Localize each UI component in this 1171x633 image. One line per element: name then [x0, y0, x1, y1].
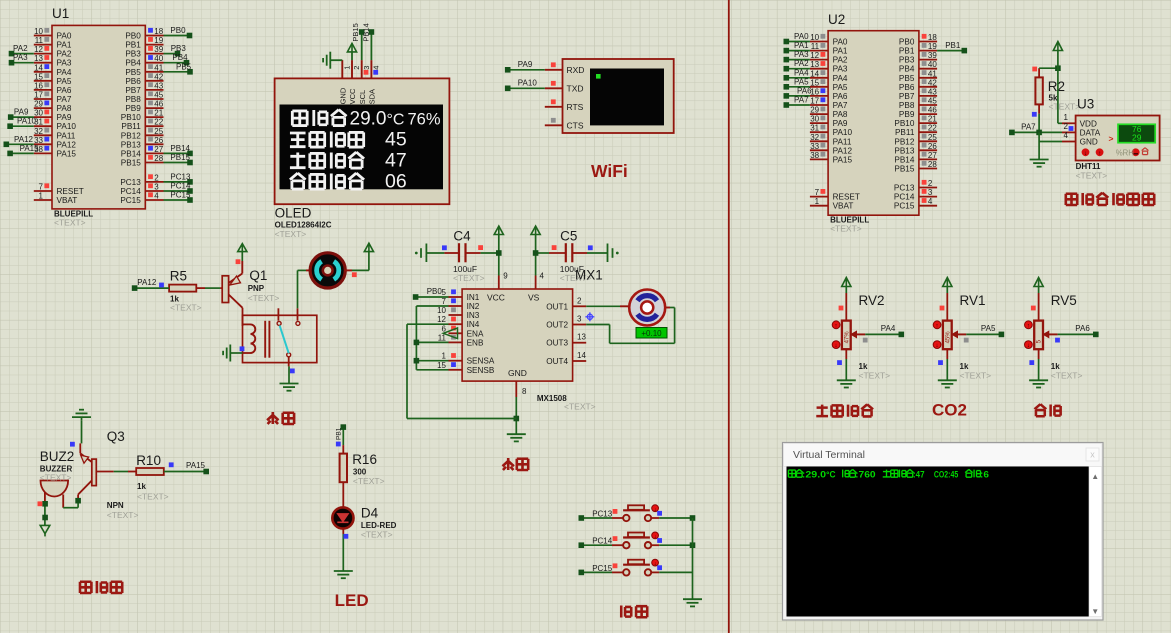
svg-text:PC14: PC14 [120, 187, 141, 196]
svg-text:PC13: PC13 [120, 178, 141, 187]
svg-text:16: 16 [34, 81, 43, 90]
svg-text:<TEXT>: <TEXT> [830, 224, 862, 234]
svg-text:RESET: RESET [833, 193, 860, 202]
svg-text:41: 41 [928, 69, 937, 78]
svg-text:28: 28 [928, 160, 937, 169]
svg-text:Q1: Q1 [249, 268, 267, 283]
svg-text:PA15: PA15 [20, 144, 40, 153]
svg-text:RXD: RXD [567, 65, 585, 75]
svg-text:VBAT: VBAT [57, 196, 78, 205]
svg-text::760: :760 [855, 469, 876, 480]
svg-text:PA1: PA1 [57, 41, 72, 50]
svg-text:PB13: PB13 [894, 146, 914, 155]
svg-text:OUT2: OUT2 [546, 321, 568, 330]
svg-text:2: 2 [154, 173, 159, 182]
svg-text:OUT3: OUT3 [546, 339, 568, 348]
svg-text:PA8: PA8 [833, 110, 848, 119]
svg-text:VCC: VCC [487, 293, 505, 303]
svg-text:+0.10: +0.10 [641, 329, 662, 338]
svg-text:7: 7 [815, 188, 820, 197]
svg-text:PB8: PB8 [125, 95, 141, 104]
svg-text:27: 27 [928, 151, 937, 160]
svg-text:PA0: PA0 [833, 38, 848, 47]
svg-text:12: 12 [810, 51, 819, 60]
svg-text:OLED: OLED [275, 206, 312, 221]
svg-text:>: > [1109, 134, 1114, 144]
svg-text:4: 4 [372, 66, 381, 70]
svg-text:PA6: PA6 [57, 86, 72, 95]
svg-text:PB0: PB0 [125, 32, 141, 41]
svg-text:3: 3 [362, 66, 371, 70]
svg-text:<TEXT>: <TEXT> [453, 273, 485, 283]
svg-text:7: 7 [39, 183, 44, 192]
svg-text:PB6: PB6 [899, 83, 915, 92]
svg-text:PB1: PB1 [899, 47, 915, 56]
svg-text:PB3: PB3 [899, 56, 915, 65]
svg-text:<TEXT>: <TEXT> [353, 476, 385, 486]
svg-text:2: 2 [1064, 122, 1069, 131]
svg-text:PB14: PB14 [894, 155, 914, 164]
svg-text:19: 19 [928, 42, 937, 51]
svg-text:15: 15 [437, 361, 446, 370]
svg-text:41: 41 [154, 63, 163, 72]
svg-text:PA5: PA5 [833, 83, 848, 92]
svg-text:BUZ2: BUZ2 [40, 449, 75, 464]
svg-text:VDD: VDD [1080, 119, 1097, 128]
svg-text:PA12: PA12 [137, 278, 157, 287]
svg-text:▬: ▬ [1133, 151, 1138, 156]
svg-text:°C: °C [387, 112, 405, 129]
svg-text:PB0: PB0 [899, 38, 915, 47]
svg-text:1: 1 [815, 197, 820, 206]
svg-text:DATA: DATA [1080, 128, 1101, 137]
svg-text:SCL: SCL [358, 90, 367, 105]
svg-text:8: 8 [522, 387, 527, 396]
svg-text:GND: GND [339, 87, 348, 104]
svg-text:10: 10 [34, 27, 43, 36]
svg-text::29.0: :29.0 [802, 469, 826, 480]
svg-text:x: x [1090, 450, 1095, 460]
svg-text:PB5: PB5 [125, 68, 141, 77]
svg-text:ENB: ENB [467, 338, 484, 347]
svg-text:R10: R10 [136, 453, 161, 468]
svg-text:PC14: PC14 [170, 182, 191, 191]
svg-text:PB8: PB8 [899, 101, 915, 110]
svg-text:U1: U1 [52, 6, 69, 21]
svg-text:PB14: PB14 [170, 144, 190, 153]
svg-text:IN2: IN2 [467, 302, 480, 311]
svg-text:PA1: PA1 [833, 47, 848, 56]
svg-text:11: 11 [811, 42, 820, 51]
svg-text:PA2: PA2 [13, 44, 28, 53]
svg-text:PC15: PC15 [592, 564, 613, 573]
svg-text:42: 42 [154, 72, 163, 81]
svg-text:45: 45 [154, 91, 163, 100]
svg-text:PA1: PA1 [794, 41, 809, 50]
svg-text:R2: R2 [1048, 79, 1065, 94]
svg-text:↑: ↑ [835, 323, 838, 329]
svg-text:VBAT: VBAT [833, 202, 854, 211]
svg-text:PA8: PA8 [57, 104, 72, 113]
svg-text:PA9: PA9 [833, 119, 848, 128]
svg-text:RV5: RV5 [1051, 293, 1077, 308]
svg-text:NPN: NPN [107, 501, 124, 510]
svg-text:PB11: PB11 [895, 128, 915, 137]
svg-text:32: 32 [810, 133, 819, 142]
svg-text:PC13: PC13 [592, 510, 613, 519]
svg-text:1: 1 [343, 66, 352, 70]
svg-text:↑: ↑ [1098, 151, 1101, 157]
svg-text:14: 14 [34, 63, 43, 72]
svg-text:PB15: PB15 [121, 159, 141, 168]
svg-text:PB7: PB7 [899, 92, 915, 101]
svg-text:PA9: PA9 [14, 108, 29, 117]
svg-text:76%: 76% [408, 111, 441, 129]
svg-text:R16: R16 [352, 452, 377, 467]
svg-text:16: 16 [810, 87, 819, 96]
svg-text:PC14: PC14 [894, 193, 915, 202]
svg-text:PA5: PA5 [981, 324, 996, 333]
svg-text:PB15: PB15 [351, 23, 360, 41]
svg-text:10: 10 [437, 306, 446, 315]
svg-text::6: :6 [980, 469, 989, 480]
svg-text:14: 14 [810, 69, 819, 78]
svg-text:30: 30 [810, 115, 819, 124]
svg-text:RTS: RTS [567, 102, 584, 112]
svg-text:PA10: PA10 [17, 117, 37, 126]
svg-text:PA3: PA3 [57, 59, 72, 68]
svg-text:SDA: SDA [368, 89, 377, 104]
svg-text:RV2: RV2 [859, 293, 885, 308]
svg-text:↓: ↓ [835, 343, 838, 349]
svg-text:14: 14 [577, 351, 586, 360]
svg-text:PC13: PC13 [170, 172, 191, 181]
svg-text:↑: ↑ [936, 323, 939, 329]
svg-text:PA7: PA7 [1021, 123, 1036, 132]
svg-text:PA2: PA2 [794, 59, 809, 68]
svg-text:GND: GND [1080, 138, 1098, 147]
svg-text:13: 13 [810, 60, 819, 69]
svg-text:C4: C4 [453, 229, 471, 244]
svg-text:46: 46 [154, 100, 163, 109]
svg-text:PB11: PB11 [121, 122, 141, 131]
svg-text::47: :47 [913, 469, 925, 480]
svg-text:47%: 47% [844, 331, 850, 344]
svg-text:MX1: MX1 [575, 268, 603, 283]
svg-text:%RH: %RH [1116, 148, 1134, 157]
svg-text:PB4: PB4 [125, 59, 141, 68]
svg-text:PA0: PA0 [57, 32, 72, 41]
svg-text:VCC: VCC [348, 88, 357, 104]
svg-text:<TEXT>: <TEXT> [564, 402, 596, 412]
svg-text:3: 3 [154, 183, 159, 192]
svg-text:IN4: IN4 [467, 320, 480, 329]
svg-text:<TEXT>: <TEXT> [54, 217, 86, 227]
svg-text:CO2:45: CO2:45 [934, 469, 959, 480]
svg-text:PB1: PB1 [125, 41, 141, 50]
svg-text:39: 39 [154, 45, 163, 54]
svg-text:R5: R5 [170, 269, 187, 284]
svg-text:PC15: PC15 [894, 202, 915, 211]
svg-text:45%: 45% [945, 331, 951, 344]
svg-text:MX1508: MX1508 [537, 394, 567, 403]
svg-text:PB10: PB10 [121, 113, 141, 122]
svg-text:PB9: PB9 [899, 110, 915, 119]
svg-text:<TEXT>: <TEXT> [1049, 102, 1081, 112]
svg-text:PB7: PB7 [125, 86, 141, 95]
svg-text:PA4: PA4 [57, 68, 72, 77]
svg-text:28: 28 [154, 154, 163, 163]
svg-text:PB12: PB12 [121, 131, 141, 140]
svg-text:PA4: PA4 [794, 68, 809, 77]
svg-text:Q3: Q3 [107, 429, 125, 444]
svg-text:4: 4 [154, 192, 159, 201]
svg-text:PA9: PA9 [518, 60, 533, 69]
svg-text:1: 1 [39, 192, 44, 201]
svg-text:↑: ↑ [1027, 323, 1030, 329]
svg-text:PA4: PA4 [881, 324, 896, 333]
svg-text:7: 7 [442, 297, 447, 306]
svg-text:PA2: PA2 [833, 56, 848, 65]
svg-text:1: 1 [1064, 113, 1069, 122]
svg-text:4: 4 [928, 197, 933, 206]
svg-text:43: 43 [928, 87, 937, 96]
svg-text:<TEXT>: <TEXT> [859, 371, 891, 381]
svg-text:<TEXT>: <TEXT> [107, 510, 139, 520]
svg-text:PB0: PB0 [427, 287, 443, 296]
svg-text:PB3: PB3 [171, 44, 187, 53]
svg-text:06: 06 [385, 171, 407, 193]
svg-text:<TEXT>: <TEXT> [248, 293, 280, 303]
svg-text:PB0: PB0 [170, 26, 186, 35]
svg-text:PB15: PB15 [170, 153, 190, 162]
svg-text:<TEXT>: <TEXT> [137, 492, 169, 502]
svg-text:2: 2 [352, 66, 361, 70]
svg-text:OUT1: OUT1 [546, 302, 568, 311]
svg-text:VS: VS [528, 293, 540, 303]
svg-text:<TEXT>: <TEXT> [1076, 171, 1108, 181]
svg-text:15: 15 [810, 78, 819, 87]
svg-text:PB1: PB1 [945, 41, 961, 50]
svg-text:PB14: PB14 [121, 149, 141, 158]
svg-text:PB10: PB10 [894, 119, 914, 128]
svg-text:↓: ↓ [1027, 343, 1030, 349]
svg-text:45: 45 [928, 97, 937, 106]
svg-text:<TEXT>: <TEXT> [960, 371, 992, 381]
svg-text:32: 32 [34, 127, 43, 136]
svg-text:PA12: PA12 [833, 146, 853, 155]
svg-text:PA3: PA3 [794, 50, 809, 59]
svg-text:3: 3 [928, 188, 933, 197]
svg-text:PA11: PA11 [833, 137, 852, 146]
svg-text:PA11: PA11 [57, 131, 76, 140]
svg-text:18: 18 [928, 33, 937, 42]
svg-text:WiFi: WiFi [591, 161, 628, 181]
svg-text:33: 33 [810, 142, 819, 151]
svg-text:OUT4: OUT4 [546, 357, 568, 366]
svg-text:PB5: PB5 [899, 74, 915, 83]
svg-text:PA12: PA12 [14, 135, 34, 144]
svg-text:25: 25 [928, 133, 937, 142]
svg-text:GND: GND [508, 368, 527, 378]
svg-text:43: 43 [154, 81, 163, 90]
svg-text:PA4: PA4 [833, 74, 848, 83]
svg-text:47: 47 [385, 150, 407, 172]
svg-text:PA10: PA10 [518, 79, 538, 88]
svg-text:PA6: PA6 [833, 92, 848, 101]
svg-text:PA3: PA3 [833, 65, 848, 74]
svg-text:25: 25 [154, 127, 163, 136]
svg-text:PC15: PC15 [170, 191, 191, 200]
svg-text:U3: U3 [1077, 97, 1094, 112]
svg-text:↓: ↓ [1084, 151, 1087, 157]
svg-text:29: 29 [34, 100, 43, 109]
svg-text:C5: C5 [560, 229, 577, 244]
svg-text:U2: U2 [828, 12, 845, 27]
svg-text:<TEXT>: <TEXT> [40, 473, 72, 483]
svg-text:PA3: PA3 [13, 53, 28, 62]
svg-text:26: 26 [154, 136, 163, 145]
svg-text:17: 17 [810, 97, 819, 106]
svg-text:D4: D4 [361, 506, 379, 521]
svg-text:22: 22 [928, 124, 937, 133]
svg-text:5: 5 [442, 288, 447, 297]
svg-text:PB6: PB6 [125, 77, 141, 86]
svg-text:PA6: PA6 [797, 86, 812, 95]
svg-text:22: 22 [154, 118, 163, 127]
svg-text:40: 40 [928, 60, 937, 69]
svg-text:PC14: PC14 [592, 537, 613, 546]
svg-text:21: 21 [928, 115, 937, 124]
svg-text:IN3: IN3 [467, 311, 480, 320]
svg-text:▲: ▲ [1091, 472, 1099, 481]
svg-text:PA7: PA7 [794, 96, 809, 105]
svg-text:29: 29 [810, 106, 819, 115]
svg-text:PB15: PB15 [894, 165, 914, 174]
svg-text:PA12: PA12 [57, 140, 77, 149]
svg-text:PC15: PC15 [120, 196, 141, 205]
svg-text:PB12: PB12 [894, 137, 914, 146]
svg-text:PC13: PC13 [894, 184, 915, 193]
svg-text:19: 19 [154, 36, 163, 45]
svg-text:12: 12 [437, 315, 446, 324]
svg-text:PA10: PA10 [57, 122, 77, 131]
svg-text:RESET: RESET [57, 187, 84, 196]
svg-text:PA7: PA7 [57, 95, 72, 104]
svg-text:1: 1 [442, 352, 447, 361]
svg-text:PA15: PA15 [57, 149, 77, 158]
svg-text:<TEXT>: <TEXT> [1051, 371, 1083, 381]
svg-text:↓: ↓ [654, 561, 657, 567]
svg-text:11: 11 [35, 36, 44, 45]
svg-text:PA7: PA7 [833, 101, 848, 110]
svg-text:17: 17 [34, 91, 43, 100]
svg-text:15: 15 [34, 72, 43, 81]
svg-text:PB4: PB4 [172, 53, 188, 62]
svg-text:2: 2 [577, 296, 582, 305]
svg-text:°C: °C [826, 469, 836, 480]
svg-text:10: 10 [810, 33, 819, 42]
svg-text:29: 29 [1132, 132, 1142, 142]
svg-text:27: 27 [154, 145, 163, 154]
svg-text:SENSA: SENSA [467, 357, 495, 366]
svg-text:IN1: IN1 [467, 293, 480, 302]
svg-text:PNP: PNP [248, 284, 265, 293]
svg-text:SENSB: SENSB [467, 366, 495, 375]
svg-text:↓: ↓ [654, 534, 657, 540]
svg-text:PA2: PA2 [57, 50, 72, 59]
svg-text:40: 40 [154, 54, 163, 63]
svg-text:Virtual Terminal: Virtual Terminal [793, 449, 865, 461]
svg-text:13: 13 [34, 54, 43, 63]
svg-text:1k: 1k [137, 482, 146, 491]
svg-text:PA0: PA0 [794, 32, 809, 41]
svg-text:<TEXT>: <TEXT> [275, 229, 307, 239]
svg-text:39: 39 [928, 51, 937, 60]
svg-text:13: 13 [577, 333, 586, 342]
svg-text:RV1: RV1 [960, 293, 986, 308]
svg-text:<TEXT>: <TEXT> [361, 530, 393, 540]
svg-text:PB13: PB13 [121, 140, 141, 149]
svg-text:42: 42 [928, 78, 937, 87]
svg-text:3: 3 [577, 315, 582, 324]
svg-text:PA10: PA10 [833, 128, 853, 137]
svg-text:4: 4 [1064, 131, 1069, 140]
svg-text:↓: ↓ [936, 343, 939, 349]
svg-text:LED: LED [335, 591, 369, 610]
svg-text:PB9: PB9 [125, 104, 141, 113]
svg-text:29.0: 29.0 [350, 109, 387, 130]
svg-text:2: 2 [928, 179, 933, 188]
svg-text:21: 21 [154, 109, 163, 118]
svg-text:PB14: PB14 [361, 23, 370, 41]
svg-text:PA5: PA5 [794, 77, 809, 86]
svg-text:31: 31 [810, 124, 819, 133]
svg-text:12: 12 [34, 45, 43, 54]
svg-text:↓: ↓ [654, 507, 657, 513]
svg-text:CTS: CTS [567, 120, 584, 130]
svg-text:PA5: PA5 [57, 77, 72, 86]
svg-text:PB1: PB1 [335, 427, 342, 440]
svg-text:PA15: PA15 [833, 155, 853, 164]
svg-text:PB4: PB4 [899, 65, 915, 74]
svg-text:▼: ▼ [1091, 607, 1099, 616]
svg-text:ENA: ENA [467, 329, 484, 338]
svg-text:4: 4 [540, 272, 545, 281]
svg-text:18: 18 [154, 27, 163, 36]
svg-text:PA9: PA9 [57, 113, 72, 122]
svg-text:PB3: PB3 [125, 50, 141, 59]
svg-text:<TEXT>: <TEXT> [170, 303, 202, 313]
svg-text:PA6: PA6 [1075, 324, 1090, 333]
svg-text:46: 46 [928, 106, 937, 115]
svg-text:TXD: TXD [567, 83, 584, 93]
svg-text:9: 9 [503, 272, 508, 281]
svg-text:26: 26 [928, 142, 937, 151]
svg-text:PA15: PA15 [186, 461, 206, 470]
svg-text:45: 45 [385, 129, 407, 151]
svg-text:CO2: CO2 [932, 401, 967, 420]
svg-text:PB5: PB5 [176, 62, 192, 71]
svg-text:38: 38 [810, 151, 819, 160]
